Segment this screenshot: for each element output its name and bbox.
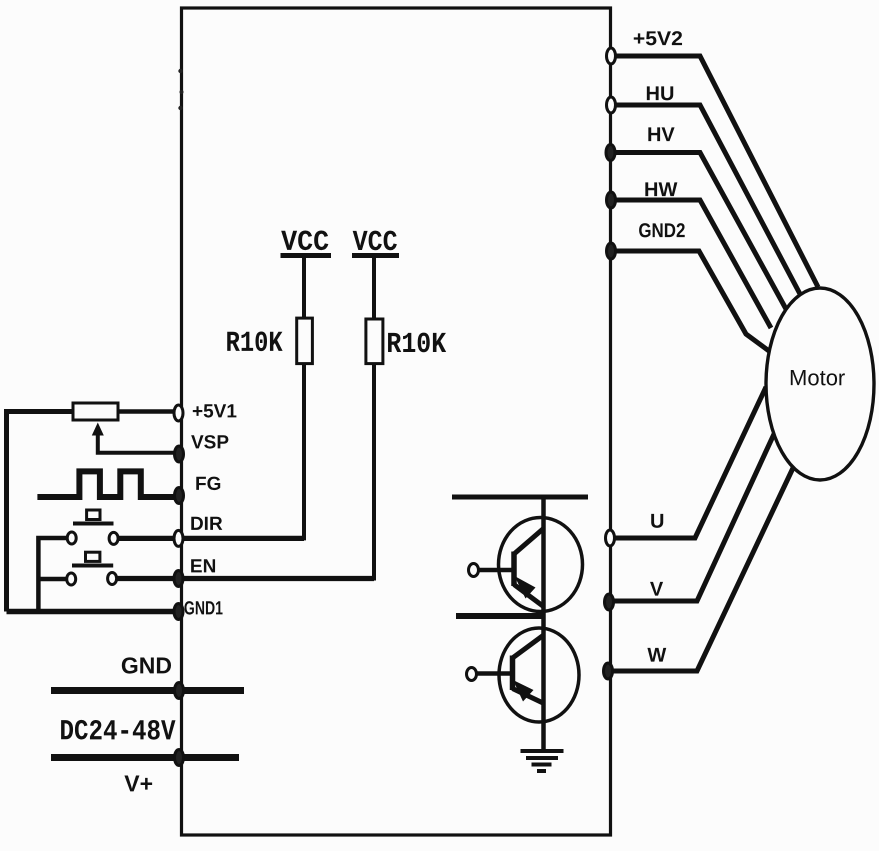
svg-text:R10K: R10K bbox=[226, 327, 283, 360]
svg-text:+5V1: +5V1 bbox=[192, 401, 237, 422]
svg-text:V: V bbox=[650, 579, 664, 601]
svg-text:DIR: DIR bbox=[190, 514, 223, 535]
svg-text:VCC: VCC bbox=[281, 226, 329, 259]
svg-text:EN: EN bbox=[190, 556, 216, 577]
svg-text:+5V2: +5V2 bbox=[633, 28, 683, 50]
svg-text:GND: GND bbox=[121, 652, 172, 678]
svg-text:DC24-48V: DC24-48V bbox=[60, 715, 177, 748]
svg-text:GND2: GND2 bbox=[638, 220, 685, 242]
svg-text:W: W bbox=[647, 645, 666, 667]
svg-text:U: U bbox=[650, 511, 664, 533]
svg-text:GND1: GND1 bbox=[184, 598, 223, 619]
svg-text:R10K: R10K bbox=[386, 328, 446, 361]
svg-text:HW: HW bbox=[644, 179, 677, 201]
svg-text:HV: HV bbox=[647, 124, 675, 146]
svg-text:HU: HU bbox=[646, 83, 675, 105]
svg-text:FG: FG bbox=[195, 474, 221, 495]
svg-text:VSP: VSP bbox=[191, 432, 229, 453]
svg-text:VCC: VCC bbox=[353, 226, 398, 259]
svg-text:Motor: Motor bbox=[789, 365, 845, 390]
svg-text:V+: V+ bbox=[124, 770, 153, 796]
